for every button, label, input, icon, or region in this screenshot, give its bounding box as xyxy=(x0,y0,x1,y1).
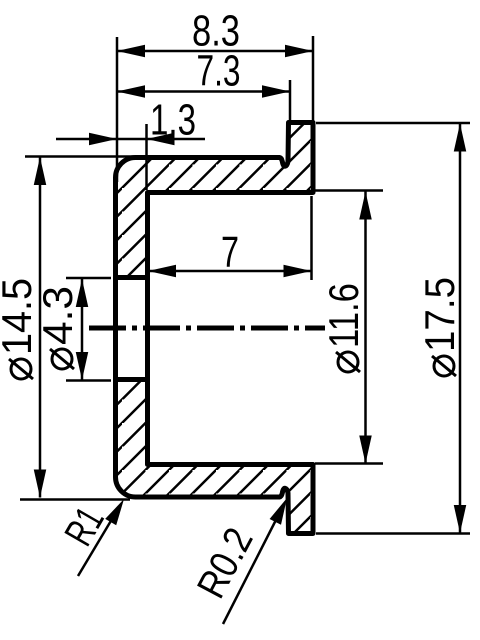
leader R1 xyxy=(78,509,118,576)
dimension phi14.5 text xyxy=(0,278,40,379)
dimension phi11.6 line xyxy=(364,192,367,464)
hole phi4.3 bottom edge xyxy=(113,377,150,382)
extension line y=190.5 (phi11.6 top) xyxy=(315,189,383,192)
extension line x=117 (8.3/7.3/1.3 left) xyxy=(116,37,119,182)
dimension phi11.6 text xyxy=(320,283,367,372)
extension line y=533.5 (phi17.5 bottom) xyxy=(316,532,470,535)
dimension phi14.5 line xyxy=(39,157,42,498)
extension line y=499.5 (phi14.5 bottom) xyxy=(20,498,130,501)
svg-text:1.3: 1.3 xyxy=(150,96,196,145)
hole phi4.3 top edge xyxy=(113,275,150,280)
extension line y=380.5 (phi4.3 bottom) xyxy=(66,379,111,382)
extension line y=123 (phi17.5 top) xyxy=(316,122,470,125)
leader R0.2 xyxy=(223,512,280,624)
extension line x=311.5 (7 right) xyxy=(310,196,313,280)
svg-text:17.5: 17.5 xyxy=(416,277,463,352)
dimension 8.3 line xyxy=(117,50,313,53)
svg-text:7.3: 7.3 xyxy=(197,47,241,96)
extension line x=313 (8.3 right) xyxy=(312,36,315,122)
svg-text:11.6: 11.6 xyxy=(320,283,367,348)
extension line y=278 (phi4.3 top) xyxy=(66,277,111,280)
section material lower (left wall bottom + bottom wall + flange bottom), hatched xyxy=(116,380,314,534)
dimension phi17.5 line xyxy=(459,124,462,534)
part outline upper section xyxy=(116,123,314,278)
dimension phi17.5 text xyxy=(416,277,463,376)
dimension phi4.3 line xyxy=(81,279,84,380)
extension line x=146.5 (1.3 right) xyxy=(145,124,148,190)
left wall outer face through hole xyxy=(113,275,118,382)
extension line x=290 (7.3 right) xyxy=(289,80,292,123)
extension line y=463.5 (phi11.6 bottom) xyxy=(315,462,383,465)
svg-text:7: 7 xyxy=(221,228,239,277)
leader R0.2 text xyxy=(189,521,262,605)
center line xyxy=(89,326,325,331)
left wall inner face through hole xyxy=(145,275,150,382)
dimension 1.3 line xyxy=(56,138,205,141)
part outline lower section xyxy=(116,380,314,534)
svg-text:4.3: 4.3 xyxy=(34,286,81,345)
dimension phi4.3 text xyxy=(34,286,81,369)
section material upper (left wall top + top wall + flange top), hatched xyxy=(116,123,314,278)
dimension 7.3 line xyxy=(117,90,290,93)
leader R1 text xyxy=(57,500,113,553)
extension line y=156.5 (phi14.5 top) xyxy=(25,155,137,158)
dimension 7 line xyxy=(148,270,312,273)
